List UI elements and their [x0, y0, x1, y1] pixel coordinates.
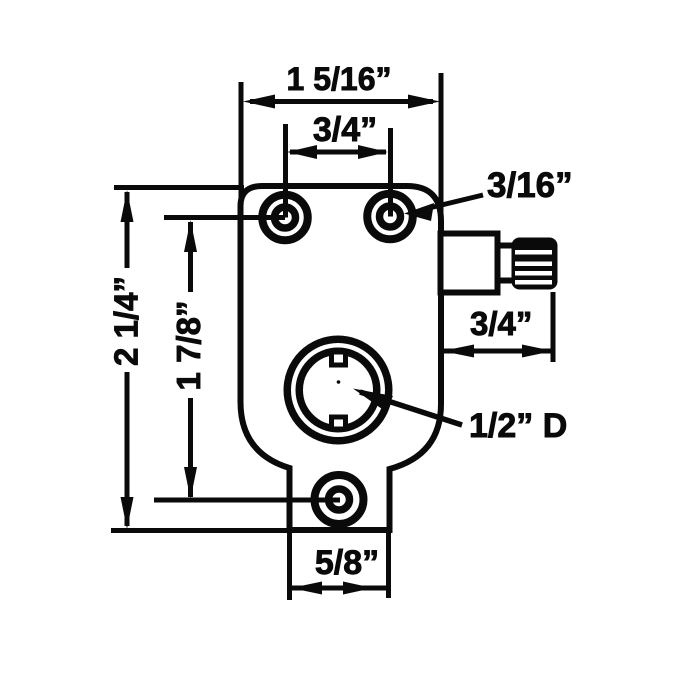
leader line 3/16	[425, 195, 483, 209]
extension line, 3/4 top right (x=390.5, into hole centre)	[388, 128, 393, 217]
extension line, 1 7/8 top (y=217.5 into top hole centre)	[164, 215, 285, 220]
big bore outer circle	[287, 339, 389, 441]
svg-text:1/2” D: 1/2” D	[469, 407, 567, 445]
arrowhead 3/4 right-dim left	[442, 345, 474, 358]
dimension line 3/4 right	[444, 349, 551, 354]
top-right hole outer ring	[367, 194, 413, 240]
dimension line 5/8	[292, 586, 387, 591]
arrowhead 1 7/8 down	[184, 467, 197, 499]
centre dot	[337, 380, 341, 384]
knurl stripe 2	[515, 262, 552, 267]
shaft neck top edge	[497, 243, 514, 249]
dimension line 1 5/16	[250, 99, 433, 104]
knurl stripe 3	[515, 271, 552, 276]
arrowhead 1/2 D	[353, 389, 393, 412]
top-left hole outer ring	[262, 195, 308, 241]
extension line, 1 5/16 right (x=441)	[439, 73, 444, 245]
extension line, 1 7/8 bottom (y=500 into bottom hole centre)	[154, 498, 340, 503]
arrowhead 3/4 right-dim right	[522, 345, 553, 358]
dimension line 1 7/8 upper segment	[188, 222, 193, 292]
extension line, 5/8 left (x=289.5)	[287, 533, 292, 600]
bottom hole inner ring	[329, 489, 350, 510]
dimension line 2 1/4 lower segment	[125, 372, 130, 526]
dimension line 3/4 top	[290, 150, 386, 155]
svg-text:3/16”: 3/16”	[487, 166, 573, 205]
knurl stripe 1	[515, 250, 552, 255]
arrowhead 3/4 top left	[287, 145, 317, 159]
svg-text:2 1/4”: 2 1/4”	[108, 276, 145, 366]
bottom notch	[332, 417, 346, 429]
leader line 1/2 D	[360, 392, 462, 425]
arrowhead 2 1/4 up	[121, 190, 134, 222]
arrowhead 1 5/16 left	[243, 95, 275, 109]
bottom hole outer ring	[315, 475, 364, 524]
body outline	[241, 186, 442, 530]
svg-text:1 5/16”: 1 5/16”	[287, 61, 392, 97]
knurled knob	[512, 238, 558, 290]
svg-text:3/4”: 3/4”	[470, 305, 532, 342]
svg-text:3/4”: 3/4”	[313, 111, 377, 149]
extension line, 3/4 right (x=553)	[551, 292, 556, 362]
arrowhead 1 7/8 up	[184, 220, 197, 252]
svg-text:5/8”: 5/8”	[315, 544, 379, 582]
extension line, 5/8 right (x=388.5)	[386, 531, 391, 598]
big bore inner circle	[299, 351, 377, 429]
shaft neck bottom edge	[497, 278, 514, 284]
extension line, 1 5/16 left (x=241)	[239, 82, 244, 212]
svg-text:1 7/8”: 1 7/8”	[170, 301, 207, 391]
arrowhead 2 1/4 down	[121, 497, 134, 529]
arrowhead 5/8 left	[291, 582, 322, 595]
knurl stripe 4	[515, 280, 552, 285]
arrowhead 1 5/16 right	[408, 95, 440, 109]
extension line, 3/4 top left (x=285.5, into hole centre)	[283, 124, 288, 218]
top notch	[332, 352, 346, 365]
top-right hole inner ring	[380, 206, 401, 227]
arrowhead 3/4 top right	[358, 145, 388, 159]
dimension line 1 7/8 lower segment	[188, 398, 193, 497]
top-left hole inner ring	[275, 207, 296, 228]
shaft block	[441, 234, 498, 293]
dimension line 2 1/4 upper segment	[125, 192, 130, 268]
extension line, 2 1/4 bottom (y=530.5)	[111, 528, 292, 533]
extension line, 2 1/4 top (y=187.5)	[114, 185, 244, 190]
arrowhead 3/16	[404, 203, 434, 221]
arrowhead 5/8 right	[343, 582, 373, 595]
